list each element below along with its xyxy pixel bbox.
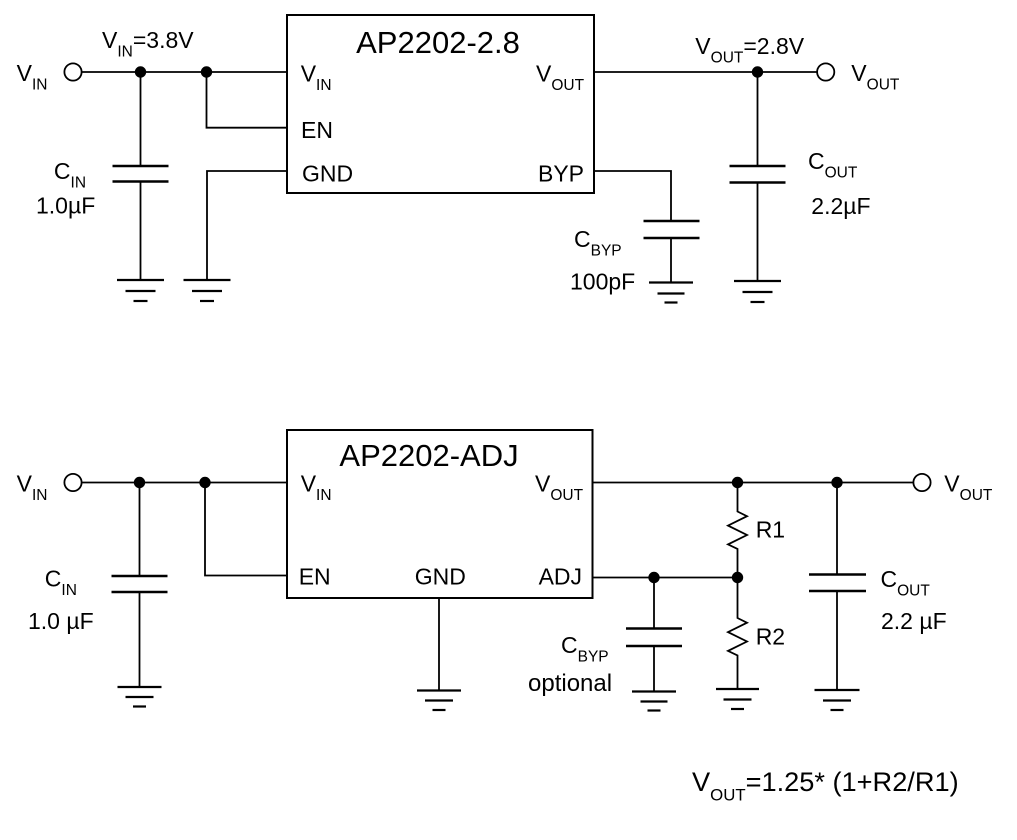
node output junction top [752,66,763,77]
terminal VIN top circuit [64,63,81,80]
capacitor CIN top plates [113,165,169,167]
node R1 top junction [732,477,743,488]
svg-text:2.2 µF: 2.2 µF [881,608,947,634]
ground COUT top [734,281,781,302]
wire BYP top [594,171,671,221]
wire EN bottom [205,483,287,576]
resistor R2 [728,578,747,690]
capacitor CIN bottom plates [112,575,168,577]
wire output rail top [594,71,817,73]
wire COUT bottom vertical lower [836,591,838,690]
svg-text:BYP: BYP [538,161,584,187]
node COUT junction bottom [831,477,842,488]
ground CIN top [117,280,164,301]
svg-text:GND: GND [415,564,466,590]
wire GND stub bottom [438,598,440,691]
svg-text:ADJ: ADJ [539,564,582,590]
wire input rail bottom [82,482,287,484]
ground CIN bottom [118,687,162,707]
wire CIN bottom vertical lower [139,592,141,687]
svg-text:R1: R1 [756,517,785,543]
svg-text:optional: optional [528,670,612,697]
ground CBYP bottom [632,692,676,711]
wire CBYP bottom vertical lower [653,646,655,692]
svg-text:EN: EN [299,564,331,590]
ground R2 [716,689,759,709]
terminal VOUT bottom circuit [913,474,930,491]
terminal VOUT top circuit [817,63,834,80]
wire CIN top vertical lower [140,182,142,281]
node input junction 2 bottom [199,477,210,488]
svg-text:R2: R2 [756,624,785,650]
node ADJ junction CBYP [648,572,659,583]
svg-text:GND: GND [302,161,353,187]
op-amp U1 AP2202-2.8 body [287,15,594,193]
wire COUT top vertical upper [757,72,759,166]
op-amp U2 AP2202-ADJ body [287,430,593,598]
ground GND pin bottom [417,691,461,711]
node ADJ junction R divider [732,572,743,583]
wire CIN bottom vertical upper [139,483,141,577]
ground GND pin top [184,280,231,301]
capacitor CBYP top plates [644,220,700,222]
svg-text:AP2202-2.8: AP2202-2.8 [356,25,520,60]
svg-text:1.0µF: 1.0µF [36,193,95,219]
wire CIN top vertical upper [140,72,142,166]
wire GND top [207,171,287,280]
capacitor CBYP bottom plates [626,627,682,629]
terminal VIN bottom circuit [64,474,81,491]
ground CBYP top [649,283,693,303]
resistor R1 [728,483,747,578]
wire input rail top [82,71,287,73]
svg-text:2.2µF: 2.2µF [811,193,870,219]
capacitor COUT top plates [730,165,786,167]
svg-text:100pF: 100pF [570,269,635,295]
wire output rail bottom [593,482,914,484]
wire ADJ bottom [593,577,738,579]
capacitor COUT bottom plates [809,573,866,575]
node input junction 1 bottom [134,477,145,488]
wire CBYP top vertical lower [670,238,672,283]
svg-text:EN: EN [301,117,333,143]
wire EN top [207,72,288,128]
wire COUT bottom vertical upper [836,483,838,575]
svg-text:1.0 µF: 1.0 µF [28,608,94,634]
wire COUT top vertical lower [757,183,759,282]
node input junction 1 top [135,66,146,77]
node input junction 2 top [201,66,212,77]
wire CBYP bottom vertical upper [653,578,655,629]
svg-text:AP2202-ADJ: AP2202-ADJ [339,438,518,473]
ground COUT bottom [815,690,860,710]
